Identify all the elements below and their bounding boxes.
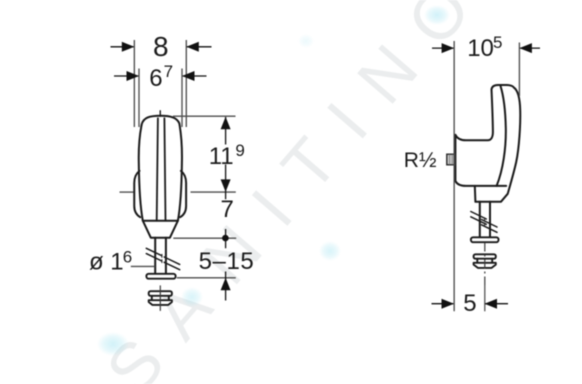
svg-text:9: 9 xyxy=(235,141,244,160)
svg-text:ø: ø xyxy=(89,248,104,275)
svg-text:1: 1 xyxy=(110,248,123,275)
svg-text:5: 5 xyxy=(493,33,502,52)
svg-text:6: 6 xyxy=(123,247,132,266)
svg-text:R½: R½ xyxy=(404,149,437,172)
svg-text:11: 11 xyxy=(209,143,234,170)
svg-text:5–15: 5–15 xyxy=(199,248,255,275)
svg-text:6: 6 xyxy=(149,65,162,92)
svg-text:7: 7 xyxy=(221,196,234,223)
svg-text:5: 5 xyxy=(463,290,476,317)
svg-text:10: 10 xyxy=(467,35,494,62)
svg-text:8: 8 xyxy=(153,31,169,62)
svg-text:7: 7 xyxy=(164,62,173,81)
